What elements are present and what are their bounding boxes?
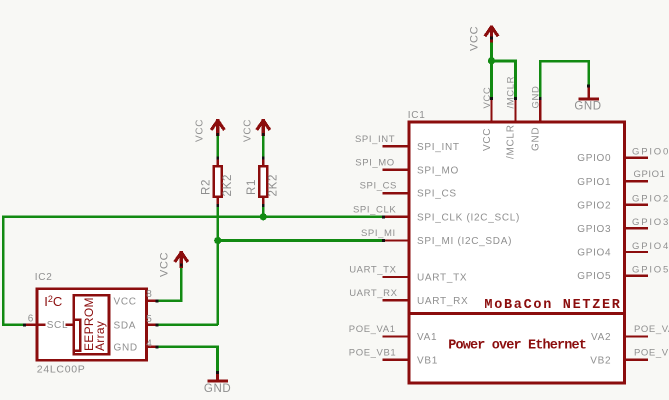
svg-text:VCC: VCC (159, 252, 171, 277)
svg-text:VCC: VCC (194, 119, 205, 142)
IC1 right pin VB2 (625, 359, 648, 361)
IC1 pin name SPI_CLK (I2C_SCL) (417, 212, 520, 223)
wire SDA to IC2 (158, 323, 218, 326)
svg-text:UART_RX: UART_RX (349, 288, 397, 299)
net label SPI_MI (361, 228, 396, 239)
junction on SPI_CLK at R1 (260, 213, 267, 220)
wire net SPI_MI (218, 239, 384, 242)
net label SPI_MO (355, 157, 395, 168)
IC1 right pin GPIO1 (625, 180, 648, 182)
svg-text:VB1: VB1 (417, 355, 438, 366)
joint arrow R1 (262, 133, 265, 136)
svg-text:GPIO3: GPIO3 (632, 217, 669, 228)
svg-text:GPIO1: GPIO1 (577, 177, 611, 188)
IC1 pin name UART_RX (417, 296, 468, 307)
IC2 pin number 8 (146, 289, 152, 300)
svg-text:GPIO2: GPIO2 (577, 200, 611, 211)
svg-text:GND: GND (530, 86, 541, 109)
svg-text:GND: GND (114, 342, 138, 353)
svg-text:6: 6 (28, 313, 34, 324)
svg-text:GND: GND (574, 100, 601, 112)
label IC2 (35, 272, 53, 283)
wire GND from IC2 pin4 (158, 347, 218, 374)
svg-text:POE_VB1: POE_VB1 (349, 347, 397, 358)
IC1 top pin GND (539, 97, 542, 122)
IC2 pin GND (4) (147, 346, 159, 349)
IC1 top pin VCC (490, 97, 493, 122)
joint R2 top (216, 157, 219, 160)
joint R1 top (262, 157, 265, 160)
svg-text:VCC: VCC (114, 296, 137, 307)
IC2 pin name SCL (47, 320, 69, 331)
IC1 right pin GPIO0 (625, 156, 648, 158)
svg-text:8: 8 (146, 289, 152, 300)
joint arrow top VCC (490, 37, 493, 40)
VCC symbol at IC2 (175, 251, 188, 268)
svg-text:VCC: VCC (482, 128, 493, 151)
svg-text:GPIO5: GPIO5 (577, 271, 611, 282)
svg-text:SDA: SDA (114, 320, 137, 331)
svg-text:5: 5 (146, 314, 152, 325)
net label UART_TX (349, 265, 396, 276)
IC1 right pin GPIO3 (625, 227, 648, 229)
IC1 pin name VB2 (590, 355, 611, 366)
GND symbol below IC2 (207, 372, 228, 381)
VCC label at R1 (242, 119, 253, 142)
IC1 pin name SPI_CS (417, 189, 457, 200)
wire R2 bottom to SDA (217, 205, 220, 325)
IC1 pin name VB1 (417, 355, 438, 366)
svg-text:SPI_INT: SPI_INT (355, 134, 395, 145)
svg-text:VCC: VCC (482, 87, 493, 109)
IC1 left pin VA1 (383, 335, 409, 337)
svg-text:GPIO5: GPIO5 (632, 264, 669, 275)
svg-text:SPI_CLK: SPI_CLK (353, 204, 396, 215)
IC2 pin number 6 (28, 313, 34, 324)
net label SPI_CS (360, 181, 397, 192)
IC1 left pin SPI_MI (382, 239, 408, 242)
svg-text:24LC00P: 24LC00P (37, 364, 86, 376)
IC1 pin name GPIO3 (577, 224, 611, 235)
svg-text:/MCLR: /MCLR (506, 124, 517, 159)
IC1 top pin /MCLR (514, 97, 517, 122)
IC2 value 24LC00P (37, 364, 86, 376)
IC1 pin name GPIO1 (577, 177, 611, 188)
IC2 pin SCL (6) (23, 324, 74, 327)
VCC label at IC2 (159, 252, 171, 277)
svg-text:I2C: I2C (44, 294, 62, 309)
net label UART_RX (349, 288, 397, 299)
joint R1 bottom (262, 204, 265, 207)
svg-text:SPI_MI (I2C_SDA): SPI_MI (I2C_SDA) (417, 236, 512, 247)
svg-text:/MCLR: /MCLR (506, 76, 517, 109)
IC2 pin number 4 (146, 338, 152, 349)
net label SPI_CLK (353, 204, 396, 215)
svg-text:SPI_CS: SPI_CS (417, 189, 457, 200)
svg-text:SPI_CS: SPI_CS (360, 181, 397, 192)
svg-text:GPIO1: GPIO1 (634, 169, 666, 180)
svg-text:VCC: VCC (242, 119, 253, 142)
VCC label top (469, 26, 481, 51)
IC1 pin name SPI_INT (417, 142, 460, 153)
value 2K2 of R1 (268, 174, 280, 197)
IC1 right pin GPIO5 (625, 274, 648, 276)
net label GPIO2 (632, 194, 669, 205)
IC1 pin name SPI_MO (417, 165, 459, 176)
IC2 pin VCC (8) (147, 300, 159, 303)
svg-text:GPIO2: GPIO2 (632, 194, 669, 205)
svg-text:GPIO4: GPIO4 (632, 241, 669, 252)
label IC1 (408, 110, 426, 121)
svg-text:GND: GND (530, 127, 541, 151)
svg-text:R1: R1 (246, 179, 258, 195)
IC2 text EEPROM (82, 297, 96, 351)
GND label bottom (204, 383, 231, 395)
IC1 title MoBaCon NETZER (484, 298, 621, 313)
joint R2 bottom (216, 204, 219, 207)
value 2K2 of R2 (222, 174, 234, 197)
IC1 pin name GPIO5 (577, 271, 611, 282)
VCC symbol top (IC1) (485, 25, 498, 42)
joint GND stem top right (587, 85, 590, 88)
wire R1 bottom to SPI_CLK (262, 205, 265, 217)
IC1 left pin UART_TX (383, 276, 409, 278)
svg-text:GPIO4: GPIO4 (577, 248, 611, 259)
svg-text:2K2: 2K2 (268, 174, 280, 197)
svg-text:IC1: IC1 (408, 110, 426, 121)
IC1 pin name GPIO4 (577, 248, 611, 259)
svg-text:VA1: VA1 (417, 332, 437, 343)
svg-text:2K2: 2K2 (222, 174, 234, 197)
wire GND from IC1 top (540, 61, 588, 98)
svg-text:POE_VA2: POE_VA2 (634, 324, 669, 335)
svg-text:SCL: SCL (47, 320, 69, 331)
wire R2 top (VCC to R2) (217, 134, 220, 159)
net label POE_VB1 (349, 347, 397, 358)
IC1 left pin SPI_INT (383, 145, 409, 147)
svg-text:SPI_CLK (I2C_SCL): SPI_CLK (I2C_SCL) (417, 212, 520, 223)
IC1 left pin VB1 (383, 359, 409, 361)
IC1 body (407, 122, 626, 383)
IC1 left pin SPI_CLK (382, 216, 408, 219)
IC1 pin name GPIO0 (577, 153, 611, 164)
IC1 pin name VCC (top) (482, 128, 493, 151)
IC1 pin name UART_TX (417, 273, 467, 284)
IC2 pin name GND (114, 342, 138, 353)
svg-text:POE_VA1: POE_VA1 (349, 324, 396, 335)
IC2 text Array (93, 321, 107, 351)
svg-text:GPIO3: GPIO3 (577, 224, 611, 235)
svg-text:VCC: VCC (469, 26, 481, 51)
IC2 pin SDA (5) (147, 324, 159, 327)
svg-text:4: 4 (146, 338, 152, 349)
IC1 pin name GND (top) (530, 127, 541, 151)
net label GPIO0 (632, 146, 669, 157)
IC2 body (37, 289, 147, 361)
joint GND stem bottom (216, 371, 219, 374)
svg-text:MoBaCon NETZER: MoBaCon NETZER (484, 298, 621, 313)
svg-text:UART_TX: UART_TX (417, 273, 467, 284)
svg-text:R2: R2 (201, 179, 213, 195)
svg-text:SPI_MO: SPI_MO (355, 157, 395, 168)
svg-text:Array: Array (93, 321, 107, 351)
IC1 pin name GPIO2 (577, 200, 611, 211)
svg-text:GPIO0: GPIO0 (632, 146, 669, 157)
IC1 pin name VA1 (417, 332, 437, 343)
IC1 pin name /MCLR (top) (506, 124, 517, 159)
IC1 pin name VA2 (591, 332, 611, 343)
IC1 right pin VA2 (625, 335, 648, 337)
VCC label at R2 (194, 119, 205, 142)
joint arrow IC2 VCC (180, 264, 183, 267)
svg-text:SPI_INT: SPI_INT (417, 142, 460, 153)
IC1 pin name SPI_MI (I2C_SDA) (417, 236, 512, 247)
VCC symbol at R2 (211, 119, 224, 136)
IC1 right pin GPIO4 (625, 251, 648, 253)
svg-text:GND: GND (204, 383, 231, 395)
svg-text:VA2: VA2 (591, 332, 611, 343)
svg-text:VB2: VB2 (590, 355, 611, 366)
label R2 (201, 179, 213, 195)
net label VCC (top pin) (482, 87, 493, 109)
IC2 pin name SDA (114, 320, 137, 331)
VCC symbol at R1 (257, 119, 270, 136)
net label POE_VA1 (349, 324, 396, 335)
IC1 left pin SPI_CS (383, 192, 409, 194)
net label GPIO3 (632, 217, 669, 228)
net label POE_VB2 (634, 347, 669, 358)
IC2 text I2C (44, 294, 62, 309)
net label SPI_INT (355, 134, 395, 145)
svg-text:UART_RX: UART_RX (417, 296, 468, 307)
IC2 pin number 5 (146, 314, 152, 325)
net label GPIO1 (634, 169, 666, 180)
svg-text:POE_VB2: POE_VB2 (634, 347, 669, 358)
net label GPIO5 (632, 264, 669, 275)
IC1 right pin GPIO2 (625, 204, 648, 206)
junction on SPI_MI at R2 (214, 237, 221, 244)
IC1 subtitle Power over Ethernet (448, 338, 586, 353)
joint arrow R2 (216, 133, 219, 136)
svg-text:SPI_MI: SPI_MI (361, 228, 396, 239)
svg-text:IC2: IC2 (35, 272, 53, 283)
wire VCC to IC1 top (VCC + /MCLR) (492, 38, 516, 99)
wire VCC to IC2 pin8 (158, 265, 182, 301)
net label /MCLR (top pin) (506, 76, 517, 109)
IC2 EEPROM array box (74, 295, 109, 354)
wire net SPI_CLK / SCL (left route) (3, 217, 383, 325)
resistor R2 (214, 157, 222, 207)
svg-text:Power over Ethernet: Power over Ethernet (448, 338, 586, 353)
net label POE_VA2 (634, 324, 669, 335)
net label GPIO4 (632, 241, 669, 252)
resistor R1 (259, 157, 267, 207)
IC1 left pin UART_RX (383, 299, 409, 301)
wire R1 top (VCC to R1) (262, 134, 265, 159)
GND symbol right of IC1 top (578, 86, 599, 99)
IC2 pin name VCC (114, 296, 137, 307)
junction on VCC wire top (488, 57, 495, 64)
net label GND (top pin) (530, 86, 541, 109)
label R1 (246, 179, 258, 195)
IC1 left pin SPI_MO (383, 168, 409, 170)
svg-text:SPI_MO: SPI_MO (417, 165, 459, 176)
svg-text:GPIO0: GPIO0 (577, 153, 611, 164)
svg-text:UART_TX: UART_TX (349, 265, 396, 276)
GND label top right (574, 100, 601, 112)
